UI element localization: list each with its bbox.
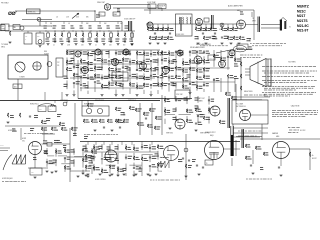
svg-text:M21T: M21T [297,14,305,18]
svg-text:FINE: FINE [44,51,47,53]
svg-text:2ND: 2ND [37,36,40,38]
svg-text:IF: IF [25,39,26,41]
svg-text:ION TRAP: ION TRAP [238,46,244,49]
svg-text:4.5: 4.5 [100,14,102,16]
svg-text:3.3K: 3.3K [109,45,112,47]
svg-text:DAMPER: DAMPER [272,132,278,135]
svg-text:1ST: 1ST [57,62,60,64]
svg-text:COIL: COIL [31,172,34,174]
svg-text:56K: 56K [86,23,89,25]
svg-text:SYNC: SYNC [0,145,4,147]
svg-text:VIDEO AMPLIFIER: VIDEO AMPLIFIER [190,46,205,49]
svg-text:56K: 56K [86,17,89,19]
svg-text:OSC: OSC [22,140,25,142]
svg-text:TV TUNER: TV TUNER [1,44,8,46]
svg-text:HORIZ FREQ ADJ: HORIZ FREQ ADJ [2,177,13,180]
svg-text:T6: T6 [206,163,208,165]
svg-text:VIDEO DET: VIDEO DET [97,2,105,4]
svg-text:RECTIFIER 5U4: RECTIFIER 5U4 [236,106,246,108]
svg-text:.01: .01 [53,45,55,47]
svg-text:1M: 1M [50,23,53,25]
svg-text:TUNER: TUNER [19,77,25,79]
svg-text:FULL WAVE: FULL WAVE [236,103,243,106]
svg-text:MUNTZ: MUNTZ [297,4,309,8]
svg-text:3.3K: 3.3K [76,17,79,19]
svg-text:SPKR: SPKR [252,20,256,22]
svg-text:B+: B+ [312,155,314,157]
svg-text:AFC: AFC [49,108,52,111]
svg-text:M21-9C: M21-9C [297,24,309,28]
svg-text:.02: .02 [56,17,58,19]
svg-text:NOTES: NOTES [288,62,296,64]
svg-text:CAUTION: CAUTION [291,105,300,108]
svg-text:AUDIO AMPLIFIER: AUDIO AMPLIFIER [228,5,243,8]
svg-text:T4: T4 [252,18,254,20]
svg-text:OSC: OSC [39,109,42,111]
svg-text:3.3K: 3.3K [81,45,84,47]
svg-text:HORIZ OUTPUT: HORIZ OUTPUT [205,132,216,134]
svg-text:PEAK: PEAK [114,13,118,16]
svg-text:PHOTOFACT: PHOTOFACT [1,2,9,5]
svg-text:.01: .01 [95,45,97,47]
svg-text:4.5 MC TRAP: 4.5 MC TRAP [147,1,156,4]
svg-text:VIDEO AMPLIFIER: VIDEO AMPLIFIER [196,43,211,46]
svg-text:120K: 120K [67,45,70,47]
svg-text:HORIZ AFC: HORIZ AFC [84,103,91,106]
svg-text:HORIZ: HORIZ [22,138,26,140]
svg-text:M21-9T: M21-9T [297,29,308,33]
svg-text:10K: 10K [104,23,107,25]
svg-text:.047: .047 [120,23,123,25]
svg-text:VERT OSC: VERT OSC [166,133,173,135]
svg-text:680: 680 [123,45,125,47]
svg-text:V2: V2 [289,27,291,29]
svg-text:M21TS: M21TS [297,19,308,23]
svg-text:SOUND DISC: SOUND DISC [176,34,184,36]
svg-text:SOUND TAKE OFF: SOUND TAKE OFF [124,18,135,21]
svg-text:6BQ6: 6BQ6 [210,135,214,137]
svg-text:SOUND IF: SOUND IF [157,6,165,8]
svg-text:YOKE: YOKE [158,171,162,173]
svg-text:VERT OUT: VERT OUT [198,98,205,100]
svg-text:BOOST: BOOST [312,158,317,160]
svg-text:OHM: OHM [2,29,5,31]
svg-text:SYNC SEP: SYNC SEP [176,94,183,96]
svg-text:HORIZ HOLD: HORIZ HOLD [30,104,39,106]
svg-text:BAL: BAL [14,26,17,29]
svg-text:M21C: M21C [297,9,306,13]
svg-text:300: 300 [2,26,4,28]
svg-text:HORIZ DISCH: HORIZ DISCH [113,75,121,77]
svg-text:AGC: AGC [14,86,17,89]
svg-text:6AX4: 6AX4 [276,135,279,138]
svg-text:INTERLOCK: INTERLOCK [28,12,36,14]
svg-text:1ST: 1ST [25,36,28,38]
svg-text:HV 12KV: HV 12KV [300,130,305,132]
svg-text:VID: VID [57,65,59,67]
svg-text:BRIGHTNESS: BRIGHTNESS [244,91,253,93]
svg-text:4.5MC: 4.5MC [209,58,213,60]
svg-text:KRK12: KRK12 [1,47,5,49]
svg-text:.05: .05 [68,23,70,25]
svg-text:TUNING: TUNING [44,53,49,55]
svg-text:1.5K: 1.5K [66,17,69,19]
svg-text:HORIZ CONTROL: HORIZ CONTROL [95,179,106,181]
